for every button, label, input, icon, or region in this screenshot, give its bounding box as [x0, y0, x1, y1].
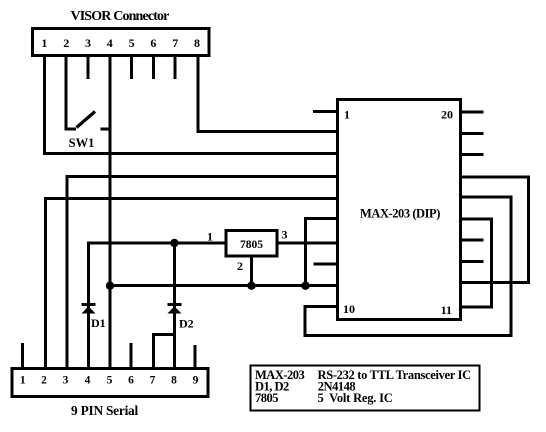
wire U2 pin2 ground down to rail [250, 257, 253, 286]
svg-text:2: 2 [237, 259, 243, 273]
stub U1 right row3 no-connect [460, 153, 484, 156]
svg-text:9 PIN Serial: 9 PIN Serial [71, 403, 138, 418]
svg-text:11: 11 [441, 303, 452, 317]
wire J1 pin8 to U1 row2 [198, 57, 338, 132]
wire J1 pin1 to U1 row3 [44, 57, 338, 154]
svg-text:7: 7 [172, 36, 178, 50]
pin numbers J1 [41, 36, 200, 50]
svg-text:VISOR Connector: VISOR Connector [70, 9, 169, 24]
pin stubs J2 (pins 1,6,9 no-connect ticks) [23, 343, 195, 368]
diode D1 [82, 305, 96, 314]
svg-text:3: 3 [85, 36, 91, 50]
wire U2 pin3 output to U1 row7 [279, 242, 339, 245]
wire D2 cathode up to node A [173, 243, 176, 368]
pin stubs J1 (pins 3,5,6,7 no-connect ticks) [88, 57, 175, 79]
op-amp U1 MAX-203 DIP box [338, 100, 461, 320]
node ground junction at U2 pin2 [247, 282, 255, 290]
svg-text:6: 6 [128, 375, 134, 387]
svg-text:4: 4 [85, 375, 91, 387]
svg-text:1: 1 [207, 230, 213, 244]
svg-text:5: 5 [129, 36, 135, 50]
svg-text:7805: 7805 [240, 239, 263, 251]
svg-text:D1: D1 [91, 316, 106, 330]
svg-text:5: 5 [107, 375, 113, 387]
svg-text:20: 20 [441, 108, 453, 122]
stub U1 right row2 no-connect [460, 132, 484, 135]
svg-text:3: 3 [282, 228, 288, 242]
stub U1 right row8 no-connect [460, 260, 484, 263]
stub U1 row8 no-connect [314, 263, 339, 266]
legend row MAX-203 [255, 368, 471, 382]
svg-text:9: 9 [193, 375, 199, 387]
svg-text:2: 2 [41, 375, 47, 387]
wire J2 pin2 to U1 row5 [46, 199, 339, 369]
svg-text:MAX-203 (DIP): MAX-203 (DIP) [360, 207, 440, 221]
svg-text:8: 8 [171, 375, 177, 387]
wire J1 pin4 to J2 pin5 vertical [109, 57, 112, 368]
wire U1 right loop path A [460, 177, 529, 283]
svg-text:D2: D2 [179, 317, 194, 331]
svg-text:SW1: SW1 [69, 136, 95, 150]
legend row D1 D2 [255, 380, 355, 394]
switch SW1 right contact to J1 pin4 wire [101, 128, 112, 131]
svg-text:1: 1 [41, 36, 47, 50]
svg-text:7805: 7805 [255, 391, 278, 405]
stub U1 pin20 no-connect [460, 111, 484, 114]
svg-text:4: 4 [107, 36, 113, 50]
diode D2 [167, 305, 181, 314]
switch SW1 blade [77, 112, 96, 128]
wire U1 right loop path C [460, 219, 491, 307]
svg-text:2: 2 [63, 36, 69, 50]
svg-text:10: 10 [343, 302, 355, 316]
wire J1 pin2 down to SW1 [66, 57, 76, 129]
wire U1 pin10 loop under chip to right pin (path B) [305, 197, 511, 335]
stub U1 pin1 no-connect [313, 110, 338, 113]
svg-text:7: 7 [150, 375, 156, 387]
svg-text:1: 1 [20, 375, 26, 387]
connector J2 9 PIN Serial box [12, 369, 208, 397]
legend row 7805 [255, 391, 393, 405]
svg-text:8: 8 [194, 36, 200, 50]
svg-text:5 Volt Reg. IC: 5 Volt Reg. IC [318, 391, 393, 405]
wire U1 row6 to ground rail [306, 219, 339, 286]
node ground junction at J2 pin5 [106, 282, 114, 290]
wire J2 pin7 loop to D2 line [154, 335, 175, 369]
svg-text:3: 3 [63, 375, 69, 387]
svg-text:1: 1 [344, 108, 350, 122]
svg-text:6: 6 [150, 36, 156, 50]
ground rail wire [110, 284, 338, 287]
regulator U2 7805 box [226, 231, 277, 257]
node ground junction at U1 row6 branch [301, 282, 309, 290]
legend table box [251, 366, 480, 411]
wire J2 pin3 to U1 row4 [67, 177, 338, 369]
wire D1 cathode up to U2 input [89, 243, 225, 368]
pin numbers J2 [20, 375, 199, 387]
connector J1 VISOR box [33, 29, 210, 56]
stub U1 right row7 no-connect [460, 238, 484, 241]
node A junction dot on U2 input wire [170, 239, 178, 247]
